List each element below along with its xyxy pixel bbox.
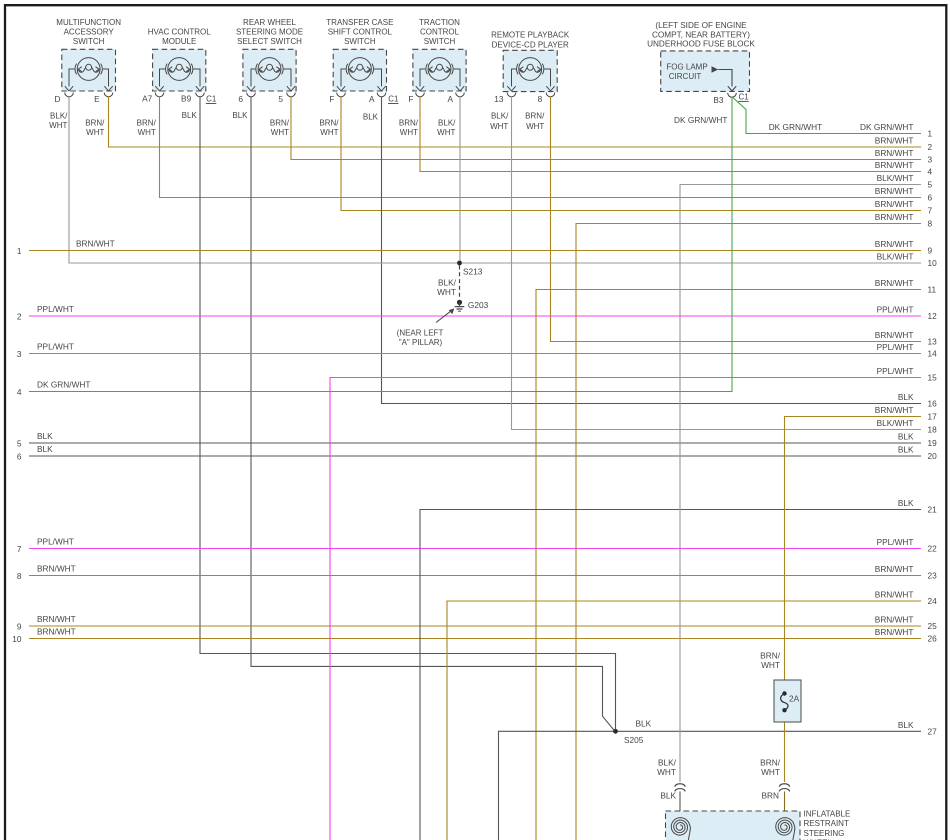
wire BRN/WHT pin E to line 2	[109, 97, 922, 148]
svg-text:BRN/WHT: BRN/WHT	[760, 758, 781, 778]
svg-text:A7: A7	[142, 94, 153, 104]
svg-text:BLK/WHT: BLK/WHT	[490, 112, 509, 132]
svg-text:BRN/WHT: BRN/WHT	[760, 651, 781, 671]
transfer case shift control switch S3	[333, 49, 386, 97]
wire BRN/WHT line 11 with leg down	[536, 290, 921, 840]
svg-text:B3: B3	[713, 95, 724, 105]
svg-text:2A: 2A	[789, 694, 800, 704]
svg-text:BRN/WHT: BRN/WHT	[85, 119, 105, 138]
wire BLK/WHT pin D to splice S213 and line 10	[69, 97, 921, 264]
svg-text:REAR WHEELSTEERING MODESELECT: REAR WHEELSTEERING MODESELECT SWITCH	[236, 18, 303, 46]
svg-text:DK GRN/WHT: DK GRN/WHT	[674, 115, 727, 125]
svg-text:E: E	[94, 94, 100, 104]
wire BLK line 5L-19R	[29, 442, 921, 444]
svg-text:A: A	[369, 94, 375, 104]
svg-text:BRN: BRN	[761, 791, 779, 801]
HVAC control module U1	[153, 49, 206, 96]
svg-text:(LEFT SIDE OF ENGINECOMPT, NEA: (LEFT SIDE OF ENGINECOMPT, NEAR BATTERY)…	[647, 21, 755, 48]
wire PPL/WHT line 7L-22R	[29, 548, 921, 550]
svg-text:BRN/WHT: BRN/WHT	[137, 119, 157, 138]
svg-text:BLK/WHT: BLK/WHT	[437, 119, 456, 138]
svg-text:BLK/WHT: BLK/WHT	[657, 758, 677, 778]
pin C1 fuse block	[738, 93, 749, 102]
ground location note with arrow	[397, 308, 455, 347]
wire BLK pin 6 down to splice S205	[251, 97, 614, 731]
wire BLK/WHT dashed to ground G203	[459, 266, 461, 298]
wire BLK transfer pin A to line 16	[382, 97, 922, 404]
svg-text:F: F	[329, 94, 334, 104]
svg-text:BRN/WHT: BRN/WHT	[270, 119, 290, 138]
wire DK GRN/WHT fuse block B3 down to line 4L	[29, 97, 732, 392]
splice S213	[457, 261, 462, 266]
wire BRN/WHT line 10L-26R	[29, 638, 921, 640]
svg-text:B9: B9	[181, 94, 192, 104]
svg-text:C1: C1	[206, 95, 217, 104]
wire BLK/WHT line 5 down to inline connector	[680, 185, 921, 783]
wire BRN/WHT line 8L-23R	[29, 575, 921, 577]
svg-text:S205: S205	[624, 735, 644, 745]
wire PPL/WHT line 2L-12R	[29, 315, 921, 317]
wire BRN/WHT line 8 with leg down	[576, 224, 921, 840]
wire BRN/WHT line 17 down to fuse 2A and coil	[785, 417, 922, 694]
svg-text:BLK/WHT: BLK/WHT	[49, 111, 68, 130]
wire BRN/WHT line 9L-25R	[29, 625, 921, 627]
wire BLK pin B9 down to splice S205	[200, 97, 616, 732]
svg-text:TRACTIONCONTROLSWITCH: TRACTIONCONTROLSWITCH	[419, 18, 460, 46]
wire BLK line 27 with leg down	[499, 731, 922, 840]
fuse 2A	[774, 680, 801, 722]
wire BLK line 21 with leg down	[420, 510, 921, 840]
pin C1	[388, 95, 399, 104]
multifunction accessory switch S1	[62, 49, 116, 96]
svg-text:13: 13	[494, 94, 504, 104]
wire BRN/WHT traction pin F to line 4	[420, 97, 921, 172]
remote playback device-CD player U2	[503, 50, 557, 97]
wire BLK line 6L-20R	[29, 455, 921, 457]
underhood fuse block	[661, 51, 750, 92]
svg-text:REMOTE PLAYBACKDEVICE-CD PLAYE: REMOTE PLAYBACKDEVICE-CD PLAYER	[491, 30, 570, 49]
clockspring coil BRN side	[776, 818, 795, 840]
traction control switch S4	[413, 49, 466, 97]
inline connector on BRN wire	[779, 784, 790, 792]
wire DK GRN/WHT branch to line 1	[733, 98, 921, 134]
pin C1	[206, 95, 217, 104]
svg-text:BRN/WHT: BRN/WHT	[525, 112, 545, 132]
svg-text:S213: S213	[463, 267, 483, 277]
svg-text:(NEAR LEFT"A" PILLAR): (NEAR LEFT"A" PILLAR)	[397, 329, 444, 348]
wire BLK inline connector to coil	[679, 791, 681, 827]
wire BRN/WHT CD pin 8 to line 13	[551, 97, 922, 342]
svg-text:BRN/WHT: BRN/WHT	[319, 119, 339, 138]
svg-text:BLK: BLK	[660, 791, 676, 801]
ground G203	[455, 300, 465, 311]
wire PPL/WHT line 3L-14R	[29, 353, 921, 355]
wire fog lamp feed inside fuse block	[718, 70, 736, 98]
svg-text:8: 8	[538, 94, 543, 104]
wire PPL/WHT line 15 with leg down	[330, 378, 921, 840]
wire BRN inline connector to coil	[784, 791, 786, 827]
wire BRN/WHT line 24 with leg down	[447, 601, 921, 840]
clockspring coil BLK side	[671, 818, 690, 840]
inline connector on BLK wire	[675, 784, 686, 792]
splice S205	[613, 729, 618, 734]
svg-text:INFLATABLERESTRAINTSTEERINGWHE: INFLATABLERESTRAINTSTEERINGWHEEL	[804, 810, 851, 840]
inflatable restraint steering wheel module	[666, 811, 801, 840]
wire BRN/WHT pin A7 to line 6	[160, 97, 922, 198]
svg-text:6: 6	[238, 94, 243, 104]
svg-text:BRN/WHT: BRN/WHT	[399, 119, 419, 138]
svg-text:BLK/WHT: BLK/WHT	[437, 278, 457, 297]
wire BLK/WHT traction pin A down to splice S213	[459, 97, 461, 264]
svg-text:A: A	[447, 94, 453, 104]
svg-text:BLK: BLK	[182, 111, 198, 120]
svg-text:BLK: BLK	[363, 113, 379, 122]
svg-text:C1: C1	[388, 95, 399, 104]
wire BRN/WHT fuse 2A to inline connector	[784, 711, 786, 783]
svg-text:G203: G203	[468, 300, 489, 310]
fog lamp circuit feed arrow	[712, 66, 719, 72]
svg-text:F: F	[408, 94, 413, 104]
svg-text:BLK: BLK	[636, 719, 652, 729]
svg-text:D: D	[55, 94, 61, 104]
svg-text:5: 5	[278, 94, 283, 104]
svg-text:BLK: BLK	[232, 111, 248, 120]
wire BRN/WHT line 1L-9R	[29, 250, 921, 252]
svg-text:DK GRN/WHT: DK GRN/WHT	[769, 122, 822, 132]
wire BRN/WHT transfer pin F to line 7	[341, 97, 921, 211]
svg-text:C1: C1	[738, 93, 749, 102]
wire BRN/WHT pin 5 to line 3	[291, 97, 921, 160]
wire BLK/WHT CD pin 13 to line 18	[512, 97, 922, 430]
rear wheel steering mode select switch S2	[243, 49, 296, 97]
